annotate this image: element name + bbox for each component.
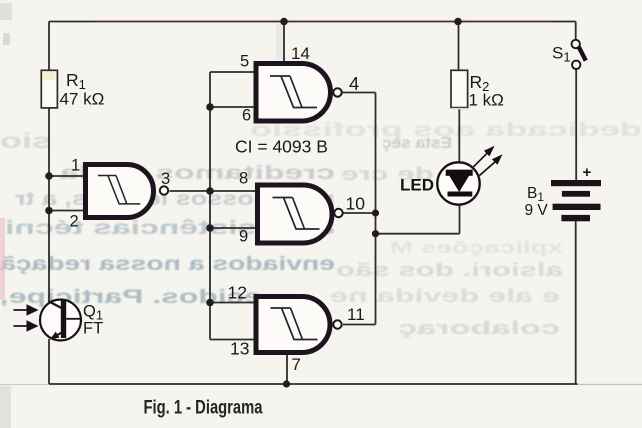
svg-text:colaboraç: colaboraç — [398, 318, 560, 338]
svg-text:7: 7 — [292, 355, 301, 374]
svg-text:+: + — [583, 164, 592, 181]
svg-text:14: 14 — [291, 44, 310, 63]
svg-text:13: 13 — [230, 339, 249, 359]
svg-text:1 kΩ: 1 kΩ — [469, 91, 504, 110]
svg-text:Esta seç: Esta seç — [382, 135, 452, 152]
svg-text:xplicações M: xplicações M — [390, 238, 563, 257]
svg-text:LED: LED — [400, 176, 434, 195]
svg-text:2: 2 — [70, 213, 79, 231]
svg-text:47 kΩ: 47 kΩ — [60, 90, 105, 109]
svg-text:sio: sio — [0, 130, 52, 153]
svg-text:B1: B1 — [527, 185, 544, 204]
svg-text:enviados a nossa redaçã: enviados a nossa redaçã — [0, 254, 335, 275]
svg-text:10: 10 — [346, 194, 366, 214]
svg-text:CI = 4093 B: CI = 4093 B — [235, 137, 328, 157]
svg-text:1: 1 — [71, 157, 80, 175]
svg-text:Fig. 1 - Diagrama: Fig. 1 - Diagrama — [144, 398, 263, 419]
svg-text:3: 3 — [161, 170, 170, 188]
svg-text:9: 9 — [239, 228, 248, 246]
svg-text:4: 4 — [349, 73, 359, 94]
svg-text:9 V: 9 V — [525, 202, 549, 219]
svg-text:11: 11 — [347, 305, 365, 324]
svg-text:5: 5 — [240, 53, 249, 71]
svg-text:6: 6 — [242, 107, 251, 125]
svg-text:S1: S1 — [552, 44, 571, 65]
svg-text:alsiori. dos são: alsiori. dos são — [336, 260, 563, 280]
svg-text:FT: FT — [83, 320, 103, 338]
svg-text:12: 12 — [228, 283, 247, 303]
svg-text:e ale devida ne: e ale devida ne — [330, 286, 560, 306]
svg-text:ecidos. Participe,: ecidos. Participe, — [0, 287, 262, 308]
svg-text:8: 8 — [239, 170, 248, 188]
